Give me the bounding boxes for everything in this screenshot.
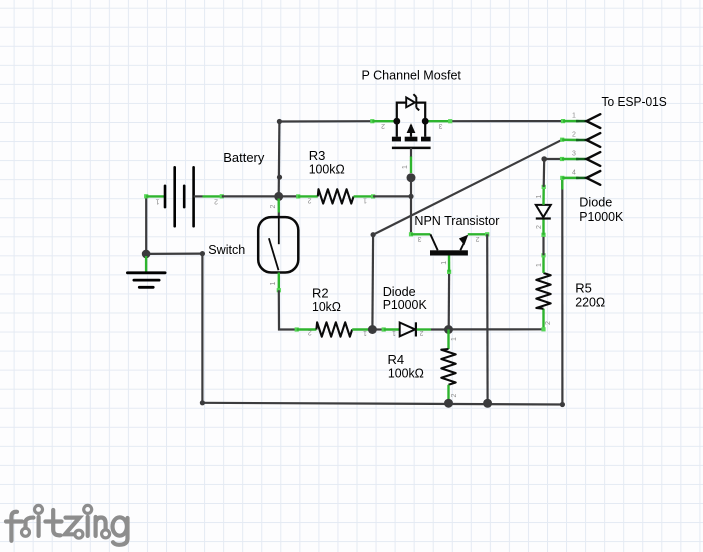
svg-text:2: 2: [381, 122, 385, 129]
svg-text:100kΩ: 100kΩ: [388, 365, 424, 380]
svg-text:2: 2: [270, 205, 277, 209]
svg-text:4: 4: [572, 169, 576, 176]
connector J1 pin 4: [560, 169, 600, 185]
svg-text:2: 2: [308, 197, 312, 204]
svg-text:2: 2: [536, 225, 543, 229]
wire gate junction down to transistor collector: [408, 178, 413, 237]
diode D2 P1000K (right): [536, 185, 551, 235]
svg-text:2: 2: [476, 235, 480, 242]
node diode/base/R4 junction: [444, 325, 453, 334]
svg-text:P1000K: P1000K: [579, 209, 623, 224]
wire junction riser to top rail: [277, 119, 282, 196]
wire junction up to transistor base: [447, 270, 451, 330]
svg-text:2: 2: [451, 394, 458, 398]
svg-text:Battery: Battery: [223, 150, 264, 165]
svg-text:2: 2: [214, 198, 218, 205]
svg-text:2: 2: [308, 329, 312, 336]
wire R3 to gate riser: [373, 195, 411, 197]
switch S1: [258, 199, 298, 293]
wire right riser to ESP pin 4: [561, 178, 563, 405]
wire switch to R2 corner: [279, 290, 297, 329]
svg-text:100kΩ: 100kΩ: [309, 161, 345, 176]
node mosfet gate junction: [407, 173, 416, 182]
node battery/switch/R3 junction: [274, 192, 283, 201]
node emitter/rail junction: [483, 399, 492, 408]
wire top rail right: [450, 120, 561, 122]
node ground junction: [142, 250, 151, 259]
battery BAT1: [146, 167, 222, 226]
svg-text:P Channel Mosfet: P Channel Mosfet: [362, 67, 462, 82]
wire diagonal to ESP pin 2: [373, 140, 562, 235]
svg-text:3: 3: [572, 150, 576, 157]
svg-text:2: 2: [572, 131, 576, 138]
diode D1 P1000K (middle): [372, 322, 448, 336]
resistor R2: [295, 322, 373, 336]
svg-text:1: 1: [363, 197, 367, 204]
wire battery positive to center junction: [220, 194, 279, 198]
node R4/rail junction: [444, 399, 453, 408]
mosfet Q1 (P channel): [370, 94, 452, 173]
svg-text:1: 1: [536, 263, 543, 267]
svg-text:2: 2: [545, 321, 552, 325]
wire R4 junction to R5 bottom corner: [452, 328, 544, 330]
wire left riser down to bottom rail: [201, 254, 203, 403]
wire pin3 node to connector: [544, 158, 562, 160]
connector J1 pin 2: [560, 131, 600, 147]
svg-text:1: 1: [270, 282, 277, 286]
svg-text:2: 2: [420, 329, 424, 336]
transistor Q2 NPN: [411, 234, 487, 271]
svg-text:3: 3: [439, 122, 443, 129]
ground: [127, 256, 165, 287]
svg-text:1: 1: [451, 337, 458, 341]
svg-text:1: 1: [156, 198, 160, 205]
svg-text:1: 1: [402, 165, 409, 169]
svg-text:Switch: Switch: [208, 242, 245, 257]
svg-text:R5: R5: [575, 280, 592, 295]
wire R5 top to diode bottom: [541, 233, 545, 256]
wire ground junction to switch-net corner: [146, 251, 205, 256]
svg-text:1: 1: [572, 113, 576, 120]
svg-text:P1000K: P1000K: [383, 297, 427, 312]
svg-text:10kΩ: 10kΩ: [312, 299, 341, 314]
svg-text:To ESP-01S: To ESP-01S: [602, 94, 668, 109]
fritzing logo: [6, 505, 128, 544]
wire top rail left: [279, 120, 372, 123]
svg-text:220Ω: 220Ω: [575, 295, 605, 310]
svg-text:3: 3: [418, 235, 422, 242]
resistor R3: [279, 189, 376, 204]
node R2 / diagonal junction: [368, 325, 377, 334]
svg-text:1: 1: [441, 261, 448, 265]
svg-text:1: 1: [392, 329, 396, 336]
connector J1 to ESP-01S pin 1: [561, 113, 600, 129]
wire battery negative to ground junction: [144, 194, 148, 254]
connector J1 pin 3: [560, 150, 600, 166]
node ESP pin3 tap: [541, 156, 547, 162]
resistor R5: [536, 253, 552, 331]
wire emitter down to bottom rail: [485, 232, 489, 403]
wire bottom rail: [200, 400, 565, 407]
svg-text:1: 1: [536, 195, 543, 199]
svg-text:NPN Transistor: NPN Transistor: [414, 213, 500, 228]
svg-text:1: 1: [363, 329, 367, 336]
svg-text:Diode: Diode: [579, 195, 612, 210]
resistor R4: [441, 330, 458, 404]
wire diode top to ESP pin3 node: [543, 159, 546, 187]
wire junction riser to diagonal start: [371, 232, 376, 329]
